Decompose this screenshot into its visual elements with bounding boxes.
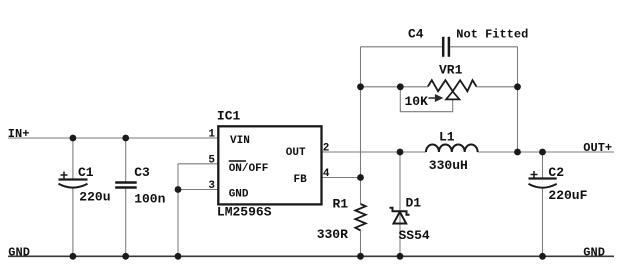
svg-text:L1: L1 [439,130,455,145]
svg-text:IN+: IN+ [8,127,30,141]
svg-text:220u: 220u [79,190,110,205]
svg-text:VIN: VIN [230,135,250,147]
svg-text:D1: D1 [406,196,422,211]
svg-text:2: 2 [323,143,330,155]
svg-text:4: 4 [323,168,330,180]
svg-text:GND: GND [583,245,605,259]
svg-text:C2: C2 [548,165,564,180]
svg-text:C3: C3 [134,165,150,180]
svg-text:OUT: OUT [286,147,306,159]
svg-text:C4: C4 [408,27,424,42]
svg-text:C1: C1 [78,165,94,180]
svg-text:SS54: SS54 [399,228,430,243]
svg-text:330R: 330R [317,227,348,242]
svg-text:VR1: VR1 [439,63,463,78]
svg-text:OUT+: OUT+ [583,141,612,155]
svg-text:100n: 100n [134,192,165,207]
svg-text:3: 3 [208,180,215,192]
svg-text:GND: GND [229,189,249,201]
svg-text:5: 5 [208,154,215,166]
svg-text:IC1: IC1 [217,109,241,124]
svg-text:LM2596S: LM2596S [217,205,272,220]
svg-text:ON/OFF: ON/OFF [229,163,269,175]
svg-text:10K: 10K [405,94,429,109]
svg-text:220uF: 220uF [548,188,587,203]
svg-text:1: 1 [208,129,215,141]
svg-text:Not Fitted: Not Fitted [456,28,528,42]
svg-text:GND: GND [8,245,30,259]
svg-text:330uH: 330uH [429,158,468,173]
svg-text:FB: FB [294,174,308,186]
svg-text:R1: R1 [333,197,349,212]
